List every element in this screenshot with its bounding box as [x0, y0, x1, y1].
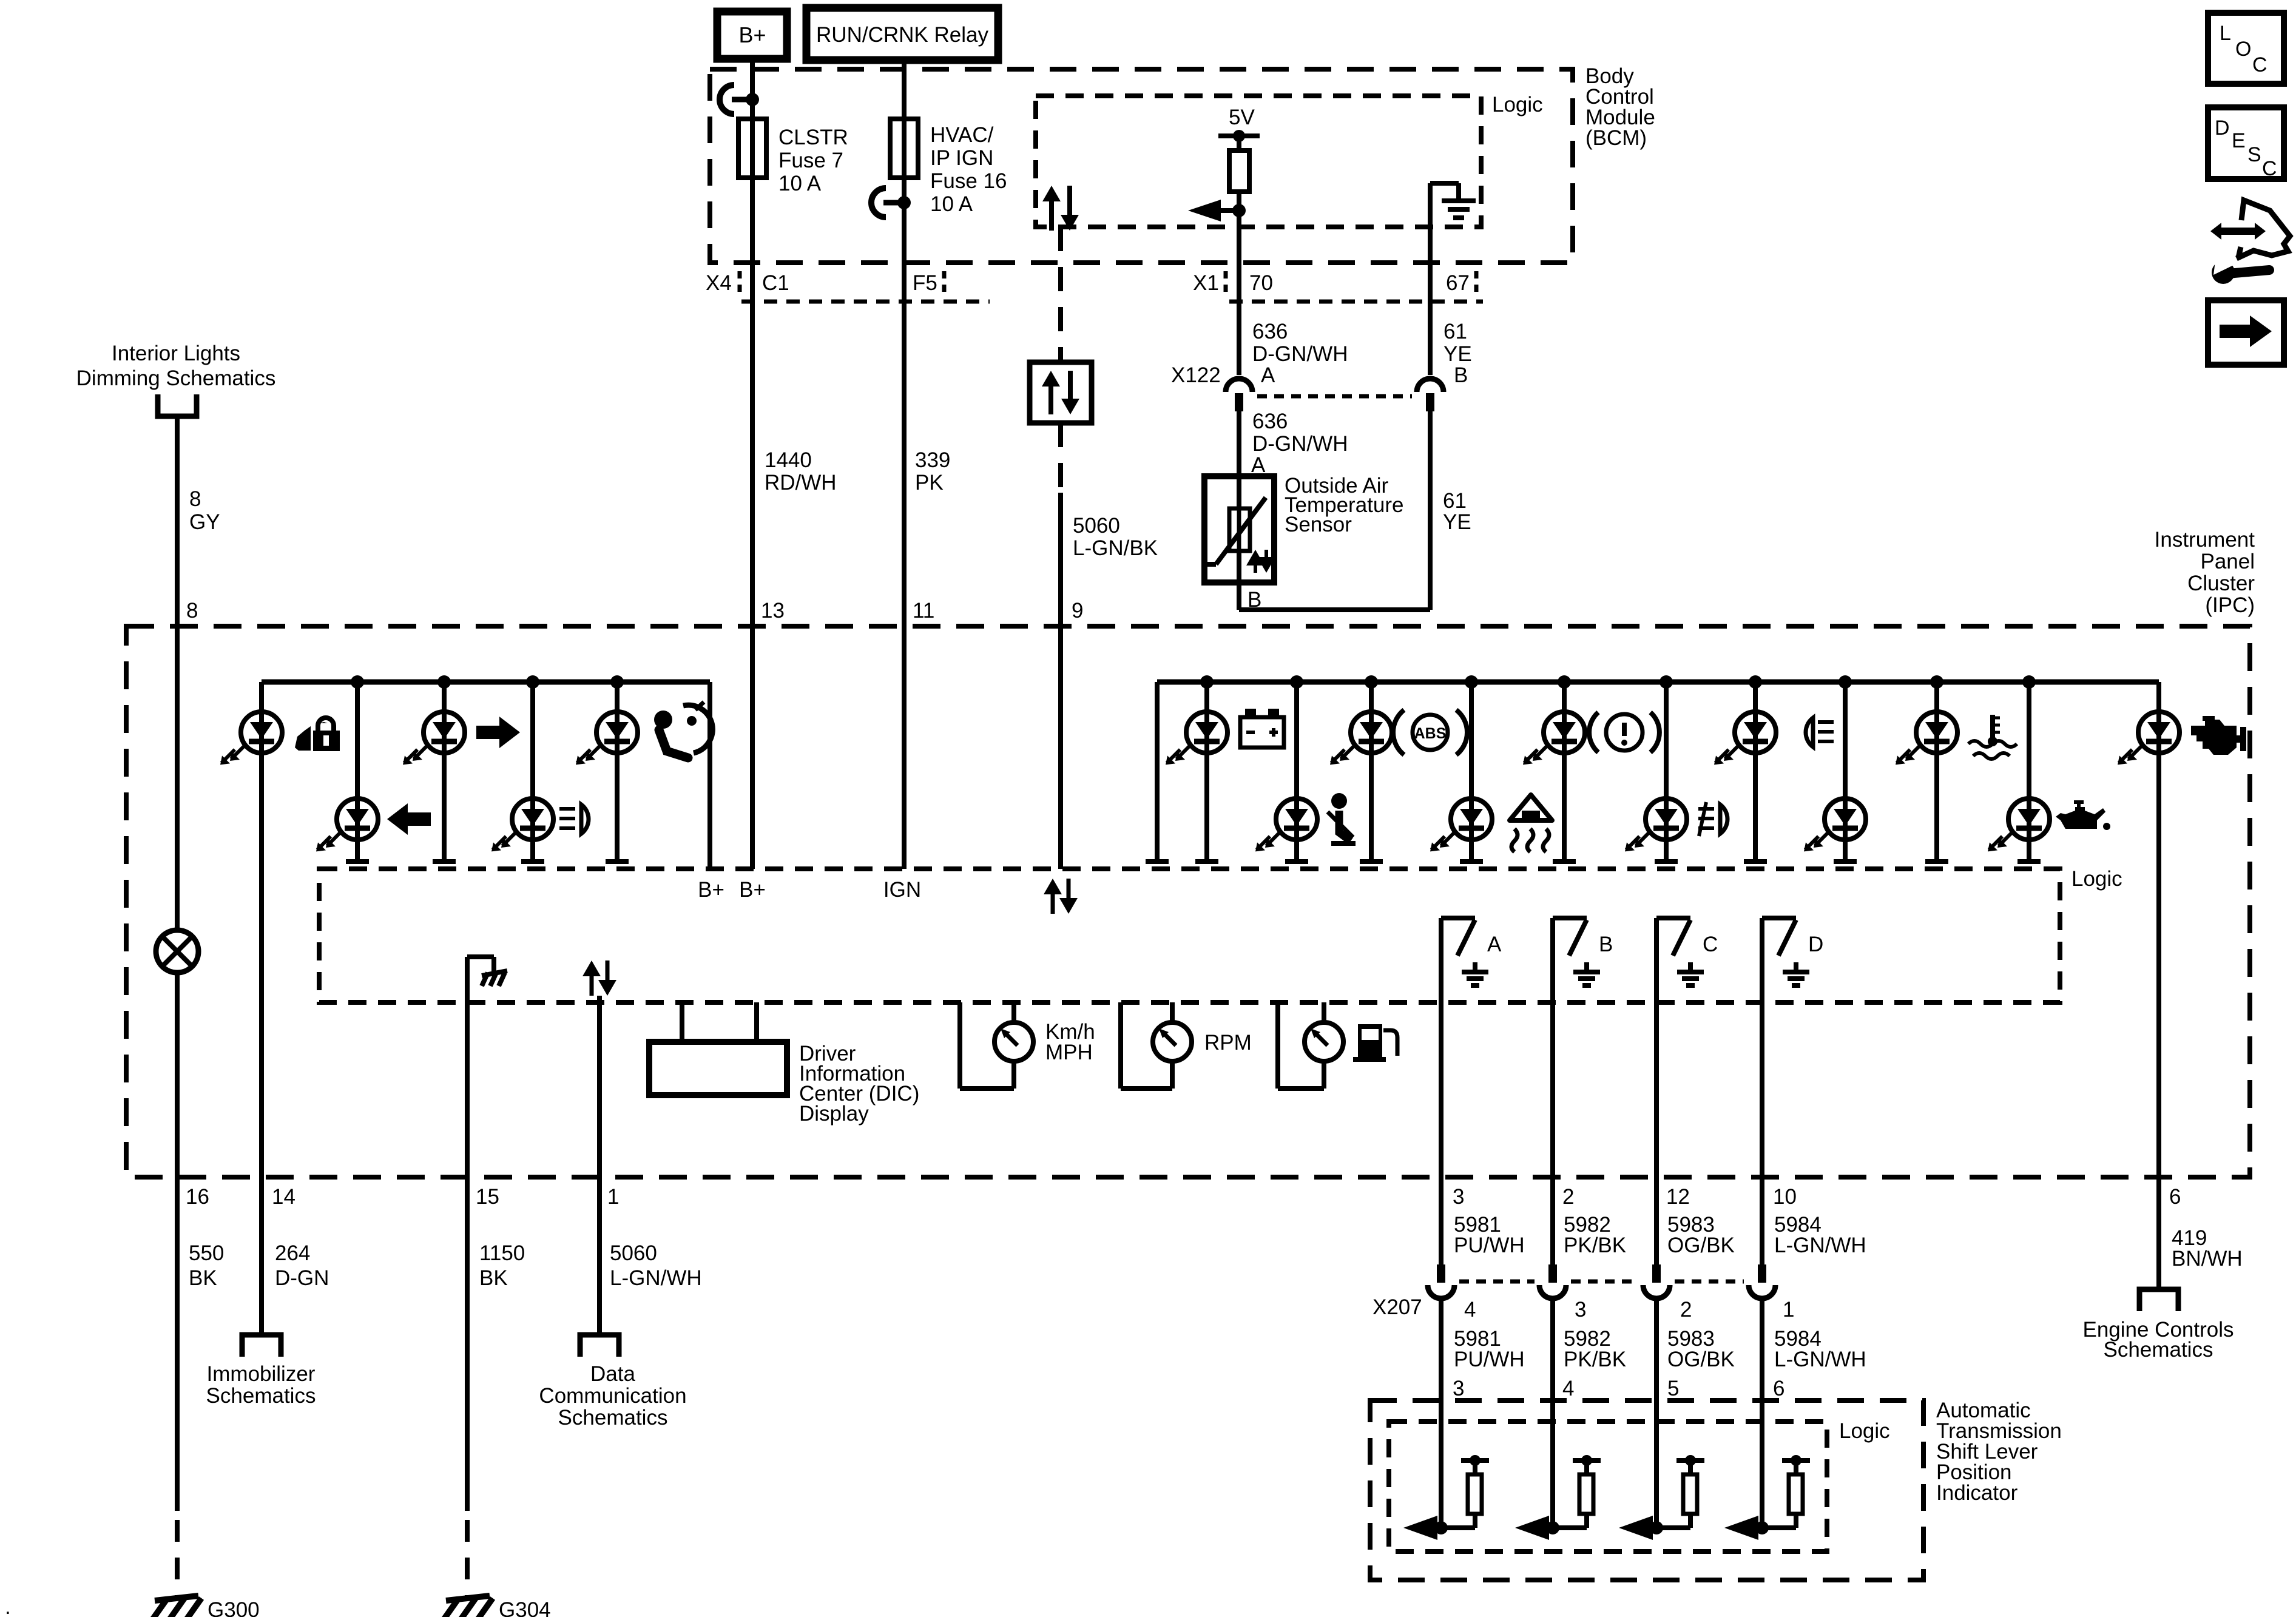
- svg-text:L-GN/WH: L-GN/WH: [610, 1266, 702, 1290]
- wire serial data to pin 1: [597, 996, 602, 1177]
- svg-text:B+: B+: [738, 22, 766, 47]
- svg-text:D-GN/WH: D-GN/WH: [1252, 432, 1348, 456]
- svg-text:4: 4: [1464, 1298, 1476, 1322]
- svg-text:550: 550: [189, 1241, 224, 1265]
- svg-text:E: E: [2232, 129, 2246, 152]
- svg-text:264: 264: [275, 1241, 310, 1265]
- wire security indicator column (to pin 14): [259, 682, 264, 1177]
- wire coolant temp column: [1934, 682, 1939, 862]
- LOC reference box: [2208, 13, 2284, 84]
- power feed B+ box: [717, 12, 787, 59]
- svg-text:Logic: Logic: [2071, 867, 2122, 891]
- wire 264 D-GN to Immobilizer: [259, 1177, 264, 1335]
- svg-text:S: S: [2247, 143, 2261, 166]
- wire 419 BN/WH pin 6 to bracket: [2156, 1177, 2161, 1289]
- wire lamp to pin 16: [175, 973, 180, 1177]
- svg-text:D: D: [1808, 933, 1823, 956]
- svg-text:OG/BK: OG/BK: [1667, 1348, 1735, 1371]
- X207 in-line connector 2: [1539, 1285, 1566, 1298]
- svg-text:Display: Display: [799, 1102, 869, 1126]
- LED coolant temperature indicator: [1916, 712, 1957, 753]
- DESC reference box: [2208, 107, 2284, 180]
- svg-text:13: 13: [761, 599, 785, 623]
- svg-text:70: 70: [1249, 271, 1273, 295]
- svg-text:F5: F5: [913, 271, 937, 295]
- svg-text:636: 636: [1252, 410, 1288, 433]
- svg-text:.: .: [5, 1595, 11, 1617]
- svg-text:Panel: Panel: [2200, 550, 2255, 573]
- LED dim indicator (no icon): [1825, 798, 1866, 840]
- svg-text:CLSTR: CLSTR: [778, 126, 848, 149]
- svg-text:14: 14: [272, 1185, 295, 1209]
- svg-text:3: 3: [1575, 1298, 1586, 1322]
- shift position switch A: [1441, 918, 1475, 1177]
- svg-text:RD/WH: RD/WH: [765, 471, 837, 495]
- wire seat belt indicator column: [1294, 682, 1299, 862]
- off-page ref Data Communication Schematics: [539, 1335, 686, 1430]
- chassis ground hatch (IPC internal): [482, 971, 507, 986]
- svg-text:Schematics: Schematics: [206, 1384, 316, 1408]
- fog lamp icon: [1698, 802, 1727, 836]
- LED traction (skid) indicator: [1451, 798, 1492, 840]
- shift sense resistor network 4: [1724, 1455, 1810, 1540]
- svg-text:OG/BK: OG/BK: [1667, 1234, 1735, 1257]
- wire traction indicator column: [1469, 682, 1474, 862]
- svg-text:A: A: [1261, 363, 1275, 387]
- BCM bidirectional data arrows (serial data): [1049, 198, 1054, 231]
- sensor internal arrows: [1254, 562, 1257, 573]
- LED charge (battery) indicator: [1186, 712, 1227, 753]
- svg-text:67: 67: [1446, 271, 1470, 295]
- Driver Information Center (DIC) Display box: [649, 1042, 787, 1095]
- svg-text:Fuse 16: Fuse 16: [930, 169, 1007, 193]
- ground G300: [153, 1596, 260, 1617]
- svg-text:Communication: Communication: [539, 1384, 686, 1408]
- wire airbag indicator column: [615, 682, 620, 862]
- right arrow icon: [476, 717, 520, 748]
- svg-text:PK/BK: PK/BK: [1564, 1234, 1626, 1257]
- svg-text:16: 16: [186, 1185, 209, 1209]
- shift position switch C: [1656, 918, 1690, 1177]
- BCM Logic dashed box: [1036, 96, 1481, 227]
- Outside Air Temperature Sensor box: [1204, 476, 1274, 582]
- terminal right turn column: [433, 859, 456, 864]
- svg-text:Interior Lights: Interior Lights: [112, 342, 240, 365]
- wire ABS indicator column: [1369, 682, 1374, 862]
- wire RUN/CRNK feed 339 (vertical through fuse 16): [902, 60, 907, 869]
- svg-text:Logic: Logic: [1839, 1419, 1890, 1443]
- speedometer label: [1045, 1020, 1095, 1064]
- shift position switch D: [1762, 918, 1796, 1177]
- svg-text:(BCM): (BCM): [1585, 126, 1647, 150]
- off-page ref Immobilizer Schematics: [206, 1335, 316, 1408]
- svg-text:C: C: [1703, 933, 1718, 956]
- svg-text:IP IGN: IP IGN: [930, 146, 993, 170]
- wire MIL engine column (to pin 6): [2156, 682, 2161, 1177]
- svg-text:Logic: Logic: [1492, 93, 1543, 116]
- svg-text:2: 2: [1562, 1185, 1574, 1209]
- wire charge indicator column: [1204, 682, 1209, 862]
- IPC internal ground (pin 15 circuit): [467, 957, 494, 1177]
- svg-text:3: 3: [1453, 1377, 1464, 1400]
- svg-text:10 A: 10 A: [930, 192, 973, 216]
- svg-text:Schematics: Schematics: [558, 1406, 668, 1430]
- ground G304: [444, 1596, 551, 1617]
- wire dim indicator column: [1843, 682, 1848, 862]
- terminal airbag column: [606, 859, 629, 864]
- svg-text:D-GN/WH: D-GN/WH: [1252, 342, 1348, 366]
- off-page ref Engine Controls Schematics: [2082, 1289, 2234, 1362]
- shift sense resistor network 1: [1403, 1455, 1489, 1540]
- svg-text:L-GN/WH: L-GN/WH: [1774, 1348, 1866, 1371]
- svg-text:1: 1: [1783, 1298, 1794, 1322]
- svg-text:6: 6: [2169, 1185, 2181, 1209]
- shift lever wires into indicator: [1439, 1177, 1443, 1268]
- LED airbag indicator: [596, 712, 638, 753]
- shift position switch B: [1553, 918, 1587, 1177]
- svg-text:1: 1: [607, 1185, 619, 1209]
- svg-text:B: B: [1599, 933, 1613, 956]
- wire 8 GY: [175, 416, 180, 930]
- wire 636 D-GN/WH (BCM pin 70 to sensor): [1237, 300, 1241, 375]
- svg-text:A: A: [1487, 933, 1502, 956]
- seat belt icon: [1328, 793, 1356, 843]
- svg-text:9: 9: [1072, 599, 1083, 623]
- LED MIL (engine) indicator: [2138, 712, 2180, 753]
- terminal charge column: [1195, 859, 1218, 864]
- shift indicator label: [1936, 1399, 2062, 1505]
- shift indicator Logic dashed box: [1389, 1422, 1827, 1551]
- splice clamp on fuse 7 feed: [720, 85, 734, 114]
- IPC label: [2155, 528, 2255, 617]
- svg-text:1150: 1150: [479, 1241, 525, 1265]
- engine (MIL) icon: [2191, 716, 2246, 755]
- svg-text:X207: X207: [1373, 1295, 1422, 1319]
- svg-text:5V: 5V: [1229, 106, 1255, 129]
- X122 in-line connector A: [1226, 379, 1252, 392]
- wire left turn indicator column: [355, 682, 360, 862]
- svg-text:YE: YE: [1443, 342, 1472, 366]
- svg-text:L-GN/BK: L-GN/BK: [1073, 536, 1158, 560]
- LED high beam indicator: [1735, 712, 1776, 753]
- LED ABS indicator: [1351, 712, 1392, 753]
- serial data arrows below logic edge: [1051, 891, 1055, 914]
- DIC feed wires: [682, 1002, 757, 1042]
- svg-text:B+: B+: [739, 878, 766, 902]
- svg-text:L: L: [2220, 22, 2231, 45]
- dimming lamp symbol: [156, 930, 198, 973]
- terminal left turn column: [346, 859, 369, 864]
- Automatic Transmission Shift Lever Position Indicator dashed box: [1370, 1400, 1923, 1580]
- X207 in-line connector 4: [1749, 1285, 1775, 1298]
- forward arrow box: [2208, 300, 2284, 365]
- terminal dim indicator column: [1834, 859, 1857, 864]
- svg-text:Dimming Schematics: Dimming Schematics: [76, 366, 276, 390]
- signal arrow into BCM logic: [1188, 200, 1246, 221]
- pull-up resistor (BCM): [1229, 150, 1249, 300]
- svg-text:PK: PK: [915, 471, 944, 495]
- X122 in-line connector B: [1417, 379, 1443, 392]
- ABS icon: [1393, 710, 1467, 755]
- svg-text:8: 8: [186, 599, 198, 623]
- LED right turn indicator: [424, 712, 465, 753]
- traction control icon: [1510, 795, 1552, 852]
- svg-text:Sensor: Sensor: [1285, 513, 1352, 536]
- terminal brake warning column: [1553, 859, 1576, 864]
- svg-text:MPH: MPH: [1045, 1041, 1093, 1064]
- svg-text:10 A: 10 A: [778, 172, 822, 195]
- svg-text:Cluster: Cluster: [2187, 572, 2255, 595]
- wire 5060 L-GN/WH to Data Communication: [597, 1177, 602, 1335]
- svg-text:YE: YE: [1443, 510, 1471, 534]
- terminal seat belt column: [1285, 859, 1308, 864]
- wire brake warning column: [1562, 682, 1567, 862]
- X122 mating dashed line: [1257, 394, 1412, 399]
- terminal oil pressure column: [2017, 859, 2041, 864]
- svg-text:339: 339: [915, 448, 950, 472]
- low beam icon: [559, 805, 589, 834]
- svg-text:PK/BK: PK/BK: [1564, 1348, 1626, 1371]
- svg-text:RUN/CRNK Relay: RUN/CRNK Relay: [816, 23, 988, 47]
- svg-text:L-GN/WH: L-GN/WH: [1774, 1234, 1866, 1257]
- svg-text:Schematics: Schematics: [2104, 1338, 2213, 1362]
- svg-text:1440: 1440: [765, 448, 812, 472]
- svg-text:8: 8: [189, 487, 201, 511]
- svg-text:5: 5: [1667, 1377, 1679, 1400]
- wire 1150 BK to G304: [465, 1177, 470, 1597]
- right indicator bus: [1157, 675, 2159, 689]
- svg-text:3: 3: [1453, 1185, 1464, 1209]
- svg-text:12: 12: [1666, 1185, 1690, 1209]
- wire 636 into sensor: [1237, 410, 1241, 485]
- svg-text:4: 4: [1562, 1377, 1574, 1400]
- svg-text:61: 61: [1443, 320, 1467, 343]
- BCM label: [1585, 64, 1655, 150]
- connector row X1 (pins 70, 67): [1193, 271, 1483, 302]
- X207 in-line connector 3: [1643, 1285, 1670, 1298]
- wire high beam column: [1753, 682, 1758, 862]
- airbag icon: [654, 702, 712, 758]
- svg-text:GY: GY: [189, 510, 220, 534]
- IPC Logic dashed box: [319, 869, 2060, 1002]
- svg-text:X4: X4: [706, 271, 732, 295]
- svg-text:Immobilizer: Immobilizer: [207, 1362, 316, 1386]
- terminal ABS column: [1360, 859, 1383, 864]
- svg-text:G300: G300: [208, 1598, 260, 1617]
- svg-text:RPM: RPM: [1204, 1031, 1252, 1055]
- wire fog lamp column: [1664, 682, 1669, 862]
- fuse HVAC/IP IGN Fuse 16 10A: [890, 119, 1007, 216]
- LED low beam indicator: [512, 798, 553, 840]
- svg-text:C: C: [2252, 53, 2267, 76]
- security (car lock) icon: [295, 718, 346, 754]
- svg-text:B: B: [1454, 363, 1468, 387]
- svg-text:Fuse 7: Fuse 7: [778, 149, 843, 172]
- svg-text:ABS: ABS: [1414, 725, 1447, 742]
- LED oil pressure indicator: [2008, 798, 2050, 840]
- svg-text:Instrument: Instrument: [2155, 528, 2255, 552]
- X207 in-line connector 1: [1428, 1285, 1454, 1298]
- svg-text:BK: BK: [189, 1266, 217, 1290]
- LED seat belt indicator: [1276, 798, 1317, 840]
- speedometer gauge: [960, 1002, 1033, 1089]
- wire 61 YE (sensor B to BCM pin 67): [1239, 300, 1430, 610]
- bus B+ terminal: [707, 682, 712, 869]
- svg-text:HVAC/: HVAC/: [930, 123, 994, 147]
- svg-text:61: 61: [1443, 489, 1467, 513]
- LED left turn indicator: [337, 798, 378, 840]
- serial data wire 5060 L-GN/BK (dashed): [1058, 227, 1063, 869]
- wire oil pressure column: [2027, 682, 2031, 862]
- switch A ground: [1462, 962, 1488, 985]
- wire 550 BK to G300: [175, 1177, 180, 1597]
- svg-text:X122: X122: [1171, 363, 1221, 387]
- Body Control Module (BCM) dashed box: [710, 69, 1573, 263]
- terminal coolant temp column: [1925, 859, 1948, 864]
- svg-text:10: 10: [1773, 1185, 1797, 1209]
- svg-text:15: 15: [476, 1185, 499, 1209]
- switch D ground: [1783, 962, 1809, 985]
- tachometer gauge: [1121, 1002, 1192, 1089]
- 5V reference in BCM: [1218, 106, 1260, 150]
- high beam icon: [1806, 718, 1834, 747]
- svg-text:Data: Data: [590, 1362, 635, 1386]
- svg-text:C1: C1: [762, 271, 789, 295]
- brake warning icon: [1589, 712, 1660, 752]
- diagnostic hand/wrench icon: [2210, 200, 2290, 284]
- switch C ground: [1677, 962, 1704, 985]
- svg-text:2: 2: [1680, 1298, 1692, 1322]
- Instrument Panel Cluster (IPC) dashed box: [126, 626, 2250, 1177]
- fuel gauge: [1278, 1002, 1343, 1089]
- svg-text:X1: X1: [1193, 271, 1219, 295]
- svg-text:Indicator: Indicator: [1936, 1481, 2018, 1505]
- svg-text:(IPC): (IPC): [2205, 593, 2255, 617]
- left indicator bus: [262, 675, 710, 689]
- svg-text:O: O: [2235, 38, 2251, 61]
- svg-text:5060: 5060: [610, 1241, 657, 1265]
- svg-text:636: 636: [1252, 320, 1288, 343]
- oil pressure icon: [2056, 802, 2110, 830]
- splice clamp below fuse 16: [871, 188, 886, 217]
- connector row X4 (pins C1, F5): [706, 271, 990, 302]
- svg-text:PU/WH: PU/WH: [1454, 1348, 1525, 1371]
- battery icon: [1240, 709, 1284, 748]
- svg-text:BK: BK: [479, 1266, 508, 1290]
- LED security indicator: [241, 712, 282, 753]
- fuel pump icon: [1353, 1024, 1397, 1062]
- RUN/CRNK Relay box: [806, 8, 998, 60]
- terminal high beam column: [1744, 859, 1767, 864]
- svg-text:IGN: IGN: [883, 878, 921, 902]
- switch B ground: [1573, 962, 1600, 985]
- fuse CLSTR Fuse 7 10A: [738, 119, 848, 195]
- terminal low beam column: [521, 859, 544, 864]
- LED brake warning indicator: [1544, 712, 1585, 753]
- svg-text:B+: B+: [698, 878, 724, 902]
- svg-text:BN/WH: BN/WH: [2172, 1247, 2243, 1271]
- terminal right bus feed: [1146, 859, 1169, 864]
- terminal traction column: [1460, 859, 1483, 864]
- svg-text:C: C: [2262, 157, 2277, 180]
- left arrow icon: [387, 803, 431, 835]
- svg-text:PU/WH: PU/WH: [1454, 1234, 1525, 1257]
- X207 mating dashed line: [1459, 1280, 1535, 1284]
- shift sense resistor network 2: [1515, 1455, 1601, 1540]
- IPC serial data arrows (pin 1 circuit): [590, 973, 594, 996]
- boxed bidirectional arrows on data wire: [1030, 362, 1092, 423]
- sensor label: [1285, 474, 1403, 536]
- wire right turn indicator column: [442, 682, 447, 862]
- DIC label: [799, 1042, 919, 1126]
- svg-text:6: 6: [1773, 1377, 1784, 1400]
- svg-text:D: D: [2215, 116, 2230, 140]
- coolant temperature icon: [1968, 715, 2017, 759]
- wire low beam indicator column: [530, 682, 535, 862]
- svg-text:G304: G304: [499, 1598, 551, 1617]
- svg-text:11: 11: [913, 599, 934, 623]
- off-page ref Interior Lights Dimming Schematics: [76, 342, 276, 416]
- shift sense resistor network 3: [1619, 1455, 1704, 1540]
- LED fog lamp indicator: [1646, 798, 1687, 840]
- terminal fog lamp column: [1655, 859, 1678, 864]
- svg-text:D-GN: D-GN: [275, 1266, 329, 1290]
- wire B+ feed 1440 (vertical through fuse 7): [750, 59, 755, 869]
- svg-text:5060: 5060: [1073, 514, 1120, 538]
- right bus feed to logic: [1155, 682, 1160, 862]
- BCM internal ground (pin 67): [1430, 183, 1476, 300]
